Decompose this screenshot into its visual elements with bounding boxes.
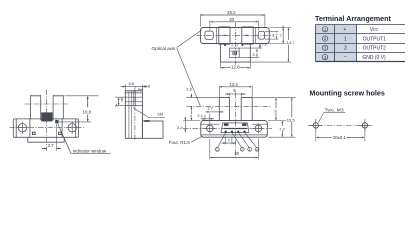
top view band outline (200, 28, 269, 44)
svg-text:6: 6 (190, 115, 192, 119)
rear view vertical centerline (46, 90, 48, 152)
Four R1.8 label (191, 136, 202, 142)
svg-text:Two, M3: Two, M3 (325, 107, 344, 113)
side view foot (142, 121, 163, 138)
svg-text:3.8: 3.8 (144, 83, 150, 88)
front view left ear hole (205, 123, 215, 133)
svg-text:GND (0 V): GND (0 V) (362, 55, 386, 61)
svg-text:20±0.1: 20±0.1 (333, 135, 347, 140)
dimension 16.5 front view (291, 98, 293, 137)
front view terminal pins (225, 131, 246, 133)
rear view right ear hole (66, 122, 78, 134)
dimension text 3.2 top view (272, 33, 279, 37)
terminal leader lines (218, 132, 257, 147)
dimension 7.2 front view (281, 121, 283, 137)
svg-text:Optical axis: Optical axis (152, 46, 176, 51)
svg-text:Terminal Arrangement: Terminal Arrangement (315, 14, 391, 23)
dimension 12.8 (top view lower block) (221, 63, 251, 70)
dimension text 16.5 (286, 117, 296, 122)
svg-text:2.1: 2.1 (197, 113, 203, 118)
dimension text 3.5 (252, 52, 259, 56)
svg-text:Vcc: Vcc (370, 27, 379, 33)
rear view small terminal square right (59, 132, 62, 134)
rear view small terminal square left (32, 132, 35, 134)
svg-text:2: 2 (241, 148, 243, 152)
svg-text:SM: SM (157, 112, 163, 117)
svg-text:OUTPUT1: OUTPUT1 (363, 36, 387, 42)
top view tiny tolerance marks (224, 44, 243, 46)
svg-text:4: 4 (121, 98, 123, 102)
dimension text 9 (274, 108, 278, 113)
dimension 3.5 (256, 49, 258, 57)
svg-text:3.7: 3.7 (207, 106, 213, 111)
dimension 3.2 front view left (183, 116, 200, 132)
terminal table polarity column (343, 27, 347, 61)
svg-text:+: + (343, 27, 346, 33)
svg-text:3.7: 3.7 (48, 143, 55, 148)
dimension 3.8 (side view) (139, 88, 143, 90)
dimension 5 front view slot (225, 93, 246, 97)
svg-text:4: 4 (256, 148, 258, 152)
dimension 6 optical axis to body top (190, 111, 192, 121)
svg-text:15.5: 15.5 (287, 117, 296, 122)
dimension 3.7 front view (205, 112, 223, 125)
mounting hole left (309, 119, 322, 132)
top view section boundary lines (217, 28, 256, 44)
svg-text:12.8: 12.8 (231, 64, 240, 69)
terminal table signal column (362, 27, 386, 61)
svg-text:10.8: 10.8 (83, 109, 92, 114)
top view center small rect with hatch (230, 48, 240, 57)
dimension 2.6 front view (186, 94, 219, 111)
dimension 9 front view (275, 98, 277, 120)
terminal circled number 2 (240, 147, 244, 151)
top view lower block (221, 44, 251, 63)
side view vertical centerline (134, 87, 136, 142)
mounting dimension 20±0.1 (316, 129, 365, 141)
dimension 3.2 vertical (top view hole) (275, 32, 277, 39)
dimension 13.4 front view (219, 86, 252, 97)
svg-text:−: − (344, 55, 347, 61)
svg-text:14.7: 14.7 (287, 40, 296, 45)
svg-text:Indicator window: Indicator window (73, 149, 107, 154)
terminal table fill (316, 25, 357, 62)
svg-text:20: 20 (229, 17, 234, 22)
rear view (left drawing) outline (13, 96, 78, 138)
top view left tower (219, 27, 230, 44)
side view tower (125, 91, 142, 139)
dimension 10.8 (rear view slot depth) (55, 96, 99, 122)
top view horizontal optical centerline with arrows (197, 34, 272, 36)
Two M3 label (318, 112, 345, 122)
svg-text:3.2: 3.2 (177, 125, 183, 130)
front view horizontal centerline (183, 127, 272, 129)
svg-text:3: 3 (248, 148, 250, 152)
top view left ear hole (205, 31, 213, 39)
terminal table grid (316, 25, 406, 62)
front view vertical centerline (234, 93, 236, 159)
front view terminal block (221, 123, 249, 133)
dimension 2.2 (259, 44, 261, 48)
rear view lower step (28, 137, 64, 142)
front view prong top chamfer ticks (220, 96, 252, 99)
svg-text:3.2: 3.2 (272, 33, 278, 38)
svg-text:2: 2 (344, 46, 347, 52)
rear view optical axis line (25, 103, 70, 105)
rear view slot dark shading (41, 112, 52, 121)
optical axis label (177, 30, 202, 106)
dimension text 14.7 (286, 40, 297, 45)
svg-text:2.6: 2.6 (186, 87, 192, 92)
svg-text:6.8: 6.8 (129, 81, 135, 86)
rear view indicator window mark (56, 120, 59, 123)
dimension 3.7 (rear view) (42, 124, 61, 151)
svg-text:13.4: 13.4 (229, 82, 238, 87)
svg-text:Mounting screw holes: Mounting screw holes (309, 89, 384, 98)
svg-text:OUTPUT2: OUTPUT2 (363, 46, 387, 52)
dimension 6.8 (side view width) (121, 84, 148, 90)
mounting holes centerline (308, 124, 373, 126)
rear view horizontal centerline (10, 127, 85, 129)
indicator window label (58, 124, 111, 154)
dimension 7 (top view band height) (282, 28, 284, 43)
dimension 20 front view (210, 139, 259, 160)
top view right dims ext lines (239, 28, 291, 63)
dimension 14.7 (top view overall depth) (287, 28, 289, 62)
front view body outline (201, 121, 267, 138)
rear view left ear hole (16, 122, 28, 134)
side view left small dims (115, 97, 125, 105)
mounting hole right (358, 119, 371, 132)
dimension 2 front view pins (222, 137, 236, 145)
terminal circled number 4 (255, 147, 259, 151)
svg-text:1: 1 (344, 36, 347, 42)
svg-text:25.2: 25.2 (227, 10, 236, 15)
front view right dims ext lines (253, 98, 296, 138)
terminal table circled numbers (322, 27, 327, 60)
front view prongs (219, 98, 252, 121)
dimension 25.2 (top view overall) (200, 14, 265, 27)
top view right ear hole (258, 31, 264, 39)
top view vertical centerline (234, 23, 236, 71)
svg-text:1: 1 (216, 148, 218, 152)
dimension 20 (top view hole spacing) (210, 21, 259, 31)
svg-text:3.5: 3.5 (252, 52, 258, 57)
svg-text:2: 2 (115, 103, 117, 107)
svg-text:7.2: 7.2 (279, 126, 285, 131)
terminal circled number 1 (215, 148, 219, 153)
svg-text:2.2: 2.2 (261, 41, 267, 46)
dimension 2.1 front view (201, 115, 214, 122)
rear view prong top chamfer ticks (31, 94, 63, 97)
top view right tower (242, 27, 253, 44)
svg-text:Four, R1.8: Four, R1.8 (169, 140, 191, 145)
dimension text 7.2 (279, 126, 286, 131)
front view right ear hole (253, 123, 263, 133)
svg-text:20: 20 (234, 151, 239, 156)
SM label (133, 108, 165, 118)
terminal circled number 3 (248, 147, 252, 151)
front view optical axis dash line (187, 105, 272, 107)
